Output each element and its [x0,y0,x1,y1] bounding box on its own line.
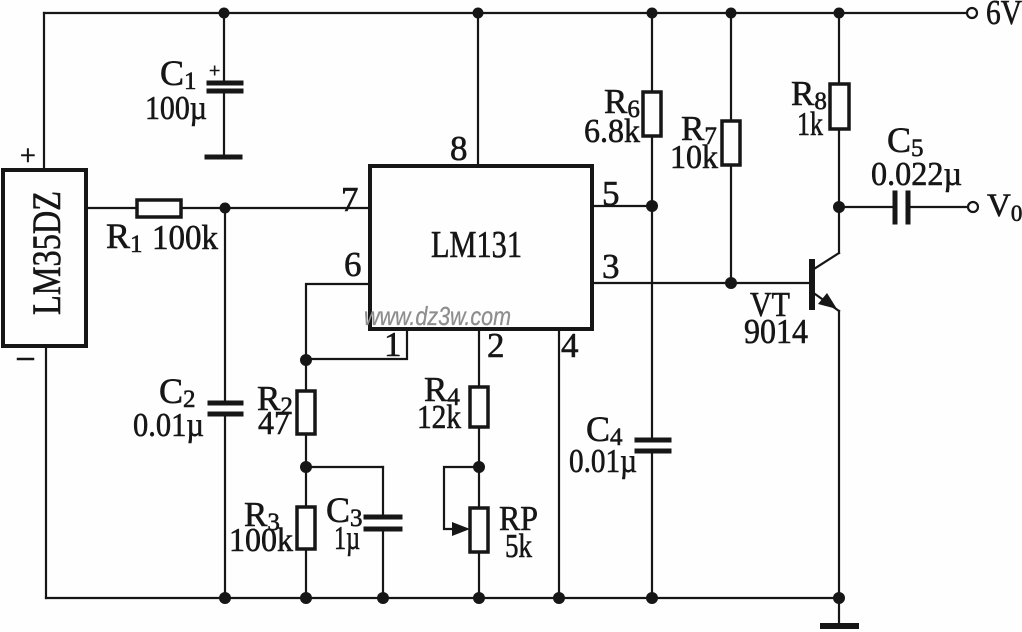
wire: LM35DZ bottom lead [45,346,47,598]
op-amp U1 LM131 [370,166,592,329]
svg-text:5k: 5k [505,528,532,565]
label C5 value [871,120,962,193]
svg-text:0.022µ: 0.022µ [871,156,962,193]
wire: pin 6 lead [306,284,370,360]
svg-text:6: 6 [344,245,362,284]
label C3 value [326,490,363,557]
svg-text:6V: 6V [986,0,1022,32]
wire: pin 5 lead [592,205,652,207]
node: ground rail junction at C3 [377,592,389,604]
svg-text:100µ: 100µ [145,90,207,127]
capacitor C2 [210,208,241,598]
node: top rail junction at R6 [647,8,658,19]
wire: left vertical from rail to LM35DZ [43,13,45,170]
node: ground rail junction at R3 [300,592,312,604]
node: ground rail junction at C2 [219,592,231,604]
svg-text:+: + [20,141,36,172]
terminal 6V [967,8,977,18]
node: junction R1 / pin7 / C2 [220,203,231,214]
svg-text:5: 5 [602,174,620,213]
svg-text:0.01µ: 0.01µ [569,443,637,480]
svg-text:R1: R1 [106,216,143,258]
label R1 value [106,216,218,258]
resistor R4 [470,387,488,467]
svg-text:LM131: LM131 [431,224,522,266]
capacitor C5 [839,193,968,222]
svg-text:4: 4 [561,326,579,365]
svg-text:100k: 100k [152,218,218,257]
svg-text:2: 2 [487,326,505,365]
label C4 value [569,409,637,480]
node: top rail junction at C1 [219,8,230,19]
resistor R8 [830,13,849,207]
svg-text:3: 3 [602,247,620,286]
wire: pin 8 lead [477,13,479,166]
wire: pin 4 lead [558,329,560,598]
label RP value [499,499,538,565]
svg-text:V0: V0 [987,188,1022,226]
label VT 9014 [744,285,808,351]
sensor LM35DZ [3,170,86,346]
label C2 value [133,371,204,444]
label R7 value [670,109,718,176]
svg-text:1µ: 1µ [334,520,360,557]
svg-text:12k: 12k [417,399,461,436]
node: junction R2 / R3 / C3 [300,461,312,473]
resistor R3 [297,467,315,598]
resistor R7 [722,13,740,283]
svg-text:9014: 9014 [744,312,808,351]
node: top rail junction at R7 [726,8,737,19]
node: ground rail junction at emitter [833,592,845,604]
ground [823,598,856,626]
resistor R1 [86,200,370,217]
label R3 value [229,495,293,559]
wire: pin 1 lead [306,329,407,359]
node: junction pin5 / R6 / C4 [646,200,658,212]
wire: pin 3 lead to transistor base [592,282,810,284]
svg-text:1k: 1k [797,106,823,143]
node: junction R4 / RP [473,461,485,473]
node: ground rail junction at C4 [646,592,658,604]
label C1 value [145,53,207,127]
wire: bottom ground rail [46,597,839,599]
svg-text:100k: 100k [229,522,293,559]
resistor R6 [643,13,661,206]
svg-text:www.dz3w.com: www.dz3w.com [364,301,511,331]
label R6 value [584,82,640,150]
node: top rail junction at pin 8 [473,8,484,19]
node: LM35DZ minus terminal [18,358,33,361]
transistor Q1 VT [809,207,839,598]
potentiometer RP [444,467,488,598]
label R4 value [417,370,461,436]
node: junction pin6 / pin1 / R2 [300,354,312,366]
svg-text:10k: 10k [670,139,718,176]
node: top rail junction at R8 [834,8,845,19]
label R8 value [791,74,827,143]
terminal V0 [968,202,978,212]
svg-text:8: 8 [450,129,468,168]
node: junction R8 / C5 / collector [833,201,845,213]
svg-text:47: 47 [258,405,290,442]
svg-text:6.8k: 6.8k [584,113,640,150]
svg-text:7: 7 [341,180,359,219]
node: ground rail junction at pin 4 [553,592,565,604]
svg-text:C1: C1 [160,53,197,95]
wire: +6V top rail [44,12,967,14]
svg-text:+: + [209,60,220,82]
resistor R2 [297,360,315,467]
wire: pin 2 lead [478,329,480,387]
capacitor C1 [207,13,241,157]
capacitor C4 [637,206,669,598]
capacitor C3 [306,467,400,598]
svg-text:0.01µ: 0.01µ [133,407,204,444]
node: junction pin3 / R7 [725,277,737,289]
label R2 value [257,379,293,442]
svg-text:LM35DZ: LM35DZ [24,191,69,315]
node: ground rail junction at RP [473,592,485,604]
